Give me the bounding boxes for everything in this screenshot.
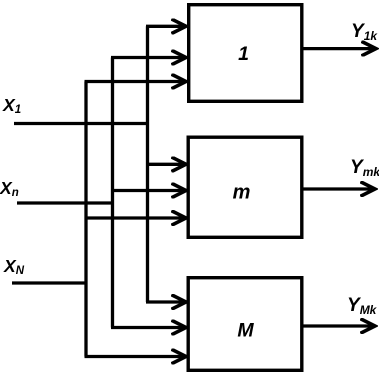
wire Xn to block 1 arrow	[111, 56, 186, 59]
wire XN to block m arrow	[85, 216, 187, 219]
svg-text:YMk: YMk	[347, 295, 378, 317]
wire X1 to block M arrow	[146, 300, 186, 303]
wire Xn to block m arrow	[111, 189, 186, 192]
svg-text:m: m	[233, 182, 251, 204]
wire Xn input horizontal	[17, 201, 113, 204]
svg-text:Xn: Xn	[0, 178, 19, 199]
wire X1 to block m arrow	[146, 163, 186, 166]
wire X1 to block 1 arrow	[146, 25, 186, 28]
wire XN riser vertical	[84, 82, 87, 357]
svg-text:Y1k: Y1k	[351, 21, 378, 43]
wire XN input horizontal	[12, 281, 86, 284]
wire output Ymk arrow	[304, 187, 376, 190]
wire X1 riser vertical	[146, 26, 149, 302]
wire Xn riser vertical	[111, 58, 114, 328]
block m	[188, 137, 302, 237]
svg-text:M: M	[237, 319, 254, 341]
svg-text:XN: XN	[3, 256, 25, 277]
block 1	[189, 5, 302, 102]
wire Xn to block M arrow	[111, 326, 186, 329]
svg-text:X1: X1	[2, 95, 21, 116]
wire X1 input horizontal	[14, 122, 148, 125]
wire output Y1k arrow	[304, 47, 377, 50]
wire output YMk arrow	[304, 324, 376, 327]
wire XN to block 1 arrow	[85, 80, 187, 83]
block M	[188, 278, 302, 371]
svg-text:1: 1	[238, 43, 249, 65]
wire XN to block M arrow	[85, 355, 187, 358]
svg-text:Ymk: Ymk	[350, 157, 379, 179]
